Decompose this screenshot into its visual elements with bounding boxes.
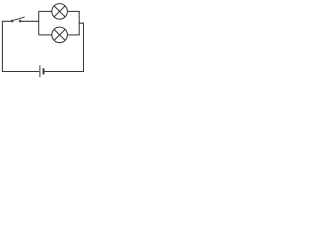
wire: left junction vertical: [38, 11, 40, 35]
lamp L1 (top) body: [52, 4, 68, 20]
wire: switch to left junction: [21, 20, 39, 22]
lamp L1 cross stroke 1: [54, 6, 65, 17]
switch S1 terminal (left): [11, 20, 13, 22]
lamp L2 (bottom) body: [52, 27, 68, 43]
switch S1 lever: [13, 17, 25, 21]
battery B1 positive plate (long): [39, 65, 41, 77]
wire: right junction vertical: [78, 11, 80, 35]
wire: top branch right stub: [67, 10, 80, 12]
switch S1 terminal (right): [19, 20, 21, 22]
wire: top branch left stub: [39, 10, 53, 12]
battery B1 negative plate (short, thick): [43, 68, 45, 74]
wire: right mid tap and far-right vertical down to bottom rail: [44, 23, 83, 71]
wire: bottom branch left stub: [39, 34, 53, 36]
wire: bottom branch right stub: [67, 34, 80, 36]
lamp L2 cross stroke 1: [54, 29, 65, 40]
lamp L2 cross stroke 2: [54, 29, 65, 40]
wire: left loop (top-left horizontal, left vertical, bottom-left rail to battery): [2, 21, 39, 71]
lamp L1 cross stroke 2: [54, 6, 65, 17]
